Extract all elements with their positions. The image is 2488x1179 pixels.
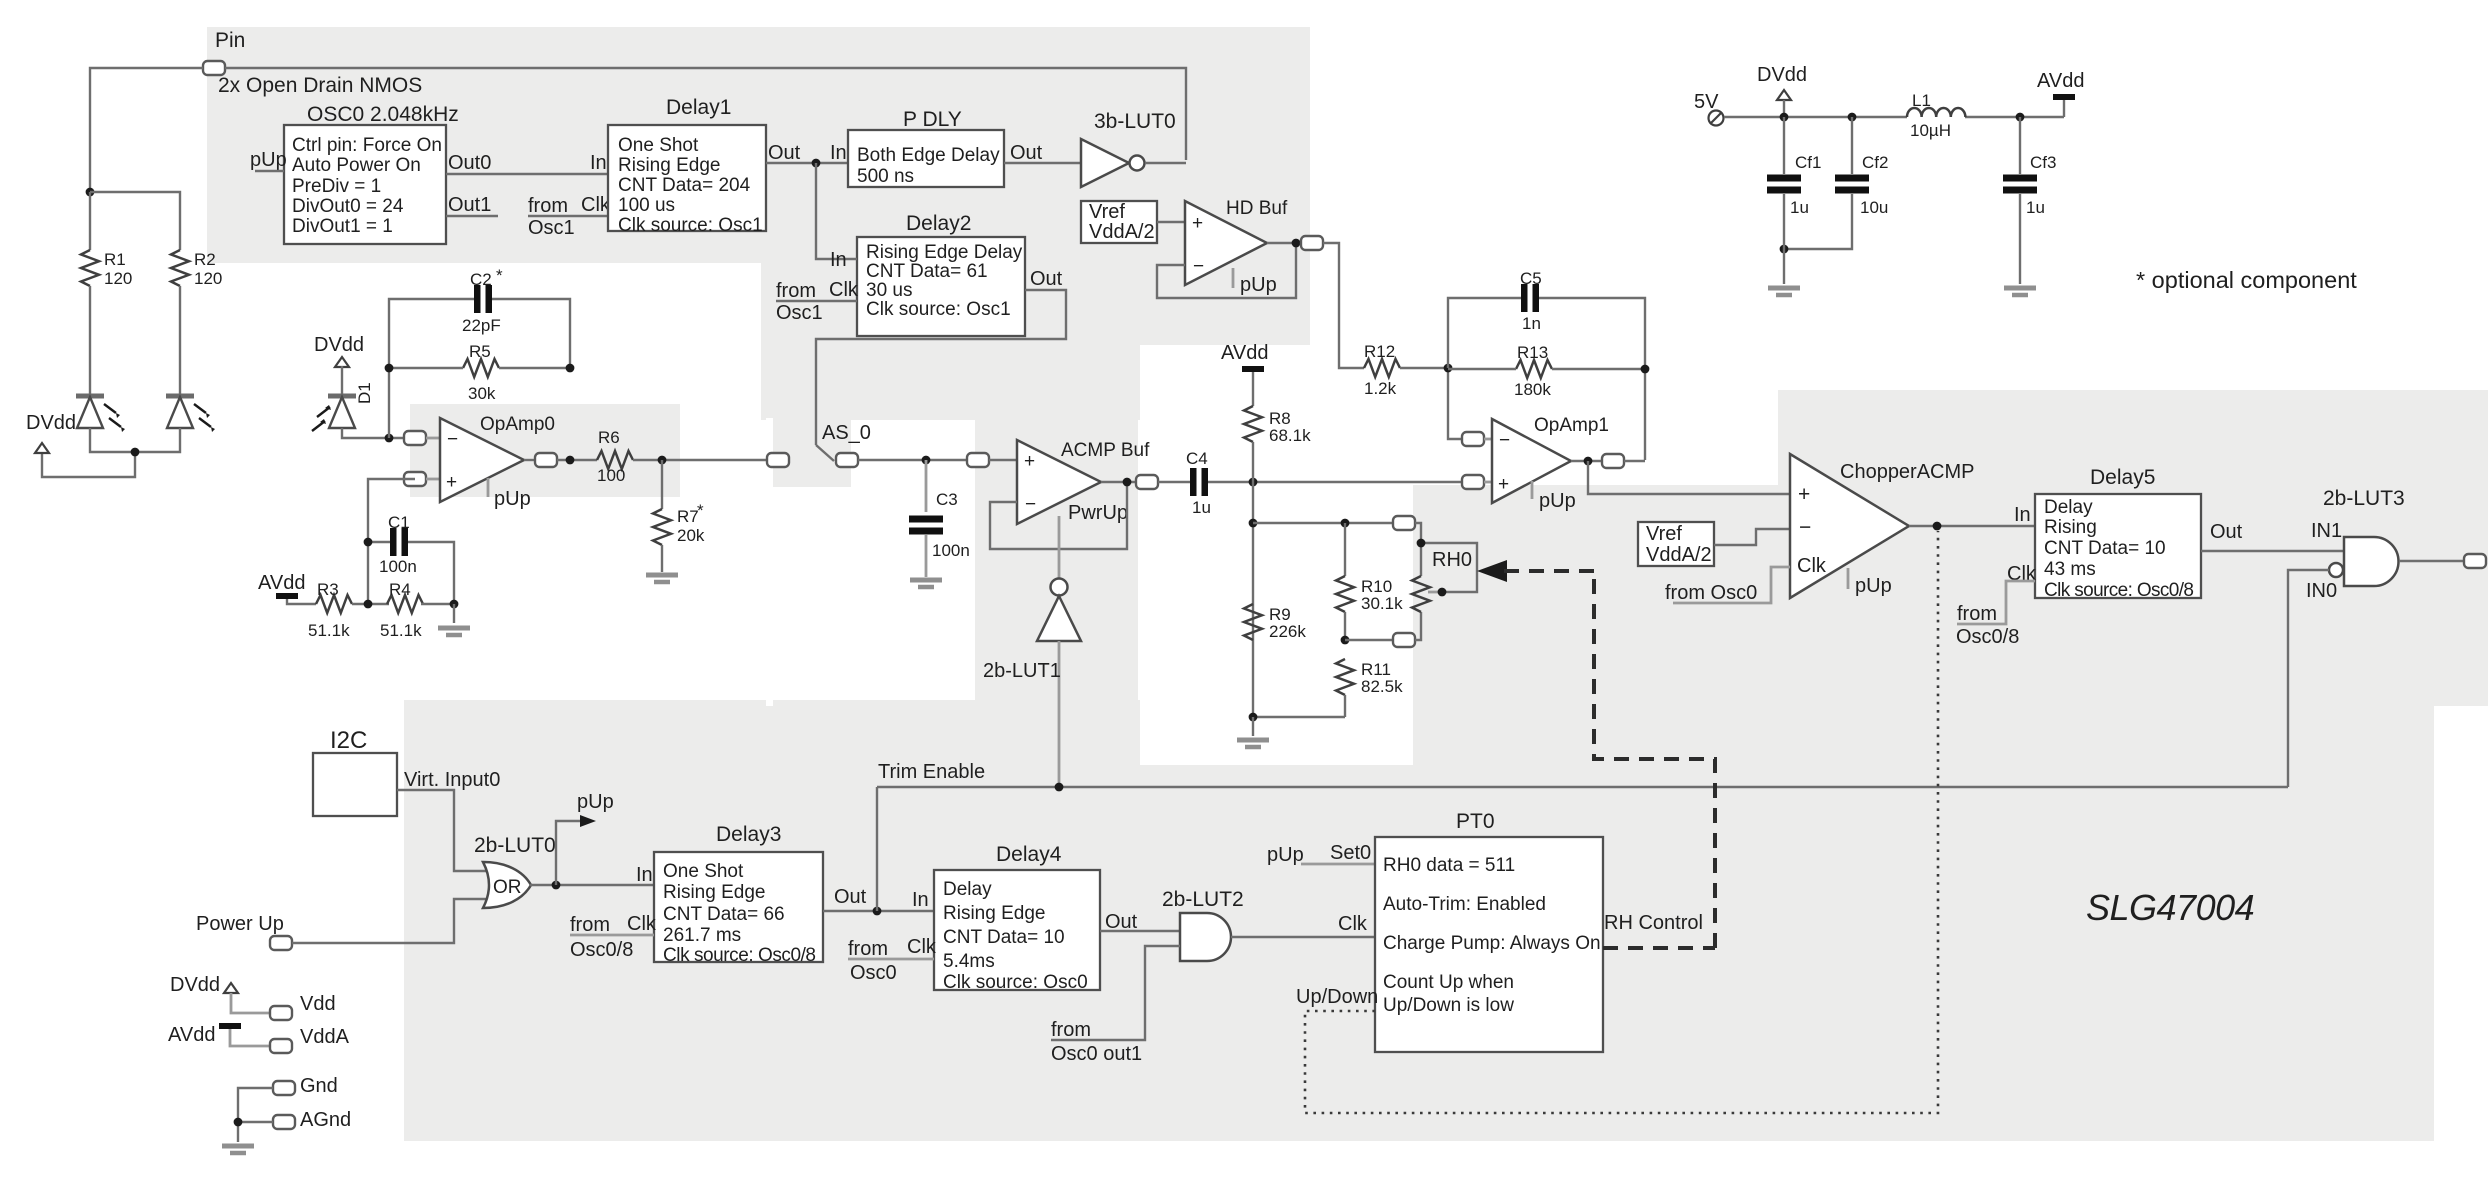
node: OpAmp0 output junction <box>566 456 575 465</box>
resistor R6 100 <box>597 428 633 485</box>
svg-text:2b-LUT0: 2b-LUT0 <box>474 834 556 857</box>
pin Gnd <box>273 1075 338 1097</box>
wire: ACMP Buf feedback loop <box>990 482 1127 549</box>
svg-text:−: − <box>447 429 458 450</box>
svg-text:+: + <box>1798 483 1810 506</box>
block PT0 (auto-trim) <box>1375 810 1603 1052</box>
node: minus input junction <box>385 434 394 443</box>
svg-text:Cf3: Cf3 <box>2030 153 2056 172</box>
svg-text:DVdd: DVdd <box>1757 64 1807 86</box>
svg-text:R1: R1 <box>104 250 126 269</box>
diode D1 photodiode <box>312 366 374 431</box>
wire: Delay2 Out down to switch AS_0 <box>816 268 1066 445</box>
wire: R5 rail <box>389 367 570 369</box>
svg-text:Virt. Input0: Virt. Input0 <box>404 769 500 791</box>
wire: 2b-LUT0 output to Delay3 In <box>530 864 654 886</box>
svg-text:pUp: pUp <box>250 149 287 171</box>
svg-text:C4: C4 <box>1186 449 1208 468</box>
wire: Clk from Osc0 into Delay4 <box>848 936 937 984</box>
svg-text:Vref: Vref <box>1089 201 1125 223</box>
svg-text:AVdd: AVdd <box>168 1024 215 1046</box>
svg-text:−: − <box>1193 256 1204 277</box>
svg-text:In: In <box>830 249 847 271</box>
wire: Delay1 junction down to Delay2 In <box>816 163 857 271</box>
svg-text:AVdd: AVdd <box>258 572 305 594</box>
svg-text:Vref: Vref <box>1646 523 1682 545</box>
rheostat RH0 <box>1412 523 1477 640</box>
node: Cf2 junction <box>1848 113 1857 122</box>
svg-text:Vdd: Vdd <box>300 993 336 1015</box>
svg-text:ACMP Buf: ACMP Buf <box>1061 440 1150 461</box>
wire: Clk from Osc1 into Delay2 <box>776 279 859 324</box>
capacitor C4 1u <box>1158 449 1211 517</box>
wire: Power Up to 2b-LUT0 <box>292 899 487 943</box>
pin HD Buf output pin <box>1301 236 1323 250</box>
power AVdd (bottom pins) <box>168 1024 271 1046</box>
svg-text:R6: R6 <box>598 428 620 447</box>
pin Power Up <box>196 913 292 950</box>
resistor R13 180k <box>1514 343 1552 399</box>
wire: ChopperACMP output to Delay5 <box>1909 525 2035 527</box>
svg-text:Clk: Clk <box>581 194 611 216</box>
svg-text:Trim Enable: Trim Enable <box>878 761 985 783</box>
wire: Clk from Osc0 into ChopperACMP <box>1665 567 1790 604</box>
svg-text:2b-LUT2: 2b-LUT2 <box>1162 888 1244 911</box>
dashed wire: RH Control path <box>1504 571 1715 948</box>
svg-text:Clk source: Osc1: Clk source: Osc1 <box>866 299 1011 320</box>
node: R10 top junction <box>1341 519 1350 528</box>
svg-text:Out: Out <box>1010 142 1043 164</box>
svg-text:Delay: Delay <box>943 879 992 900</box>
resistor R4 51.1k <box>352 580 423 640</box>
svg-text:In: In <box>636 864 653 886</box>
delay Delay3 block <box>654 823 823 966</box>
svg-text:43 ms: 43 ms <box>2044 559 2096 580</box>
svg-text:180k: 180k <box>1514 380 1551 399</box>
resistor R7* 20k <box>653 460 705 545</box>
svg-text:OpAmp1: OpAmp1 <box>1534 415 1609 436</box>
and gate 2b-LUT2 <box>1162 888 1244 961</box>
reference Vref VddA/2 (ChopperACMP) <box>1638 522 1714 566</box>
svg-text:Osc0 out1: Osc0 out1 <box>1051 1043 1142 1065</box>
svg-text:DVdd: DVdd <box>26 412 76 434</box>
svg-text:RH0 data = 511: RH0 data = 511 <box>1383 855 1515 876</box>
comparator ChopperACMP <box>1790 454 1975 598</box>
svg-text:One Shot: One Shot <box>663 861 744 882</box>
node: R13 right junction <box>1641 365 1650 374</box>
wire: C1 branch <box>368 542 454 604</box>
svg-text:*: * <box>496 266 503 285</box>
svg-text:1u: 1u <box>1790 198 1809 217</box>
svg-text:RH Control: RH Control <box>1604 912 1703 934</box>
svg-text:Up/Down: Up/Down <box>1296 986 1378 1008</box>
svg-text:CNT Data= 66: CNT Data= 66 <box>663 904 785 925</box>
svg-text:Clk: Clk <box>1338 913 1368 935</box>
svg-text:from: from <box>528 195 568 217</box>
svg-text:10u: 10u <box>1860 198 1888 217</box>
svg-text:Rising Edge: Rising Edge <box>663 882 765 903</box>
svg-text:Clk: Clk <box>829 279 859 301</box>
svg-text:I2C: I2C <box>330 727 367 754</box>
svg-text:Clk source: Osc0/8: Clk source: Osc0/8 <box>2044 580 2194 601</box>
svg-text:from: from <box>776 280 816 302</box>
inverter 3b-LUT0 <box>1081 110 1176 187</box>
svg-text:pUp: pUp <box>1240 274 1277 296</box>
block I2C <box>313 727 397 816</box>
svg-text:Auto-Trim: Enabled: Auto-Trim: Enabled <box>1383 894 1546 915</box>
svg-text:Clk source: Osc1: Clk source: Osc1 <box>618 215 763 236</box>
node: R10/R11 junction <box>1341 636 1350 645</box>
svg-text:Out: Out <box>2210 521 2243 543</box>
svg-text:CNT Data= 10: CNT Data= 10 <box>2044 538 2166 559</box>
svg-text:+: + <box>1024 451 1035 472</box>
svg-text:IN0: IN0 <box>2306 580 2337 602</box>
node: ACMP output junction <box>1123 478 1132 487</box>
node: ChopperACMP output junction <box>1933 522 1942 531</box>
wire: R8/R9 column <box>1252 482 1254 717</box>
power DVdd (top) <box>1757 64 1807 117</box>
svg-text:VddA: VddA <box>300 1026 350 1048</box>
svg-text:R7: R7 <box>677 507 699 526</box>
resistor R1 120 <box>81 192 132 288</box>
wire: R1 bottom to LED1 <box>89 286 91 395</box>
svg-text:HD Buf: HD Buf <box>1226 198 1288 219</box>
delay Delay5 block <box>2014 466 2201 601</box>
svg-text:120: 120 <box>104 269 132 288</box>
wire: Clk from Osc0/8 into Delay5 <box>1956 563 2037 648</box>
svg-text:Delay2: Delay2 <box>906 212 971 235</box>
delay Delay1 block <box>608 96 766 236</box>
wire: OpAmp1 out to ChopperACMP plus <box>1588 461 1790 494</box>
svg-text:from: from <box>848 938 888 960</box>
wire: P DLY Out to 3b-LUT0 <box>1004 142 1081 164</box>
nand gate 2b-LUT3 <box>2306 487 2405 602</box>
svg-text:In: In <box>590 152 607 174</box>
wire: R10 bottom to RH0 bottom pin <box>1345 639 1393 641</box>
op-amp ACMP Buf <box>1017 440 1150 524</box>
ground (Cf3) <box>2004 194 2036 295</box>
svg-text:30.1k: 30.1k <box>1361 594 1403 613</box>
inductor L1 10uH <box>1907 91 1965 140</box>
svg-text:Osc0/8: Osc0/8 <box>570 939 633 961</box>
svg-text:Rising Edge: Rising Edge <box>943 903 1045 924</box>
wire: C5 feedback rail <box>1448 298 1645 460</box>
resistor R8 68.1k <box>1221 342 1311 482</box>
node: R7 tap junction <box>658 456 667 465</box>
op-amp HD Buf <box>1185 198 1288 296</box>
ground (R4/C1) <box>438 604 470 635</box>
wire: R2 bottom to LED2 <box>179 286 181 395</box>
svg-text:Out: Out <box>834 886 867 908</box>
svg-text:from: from <box>570 914 610 936</box>
svg-text:Out0: Out0 <box>448 152 491 174</box>
svg-text:from Osc0: from Osc0 <box>1665 582 1757 604</box>
wire: divider to RH0 top pin <box>1253 522 1393 524</box>
svg-text:CNT Data= 61: CNT Data= 61 <box>866 261 988 282</box>
source 5V input <box>1694 91 1724 126</box>
svg-text:AGnd: AGnd <box>300 1109 351 1131</box>
svg-text:Out1: Out1 <box>448 194 491 216</box>
node: LUT0 output junction <box>552 881 561 890</box>
svg-text:Clk: Clk <box>907 936 937 958</box>
wire: OSC0 Out0 to Delay1 In <box>446 152 608 174</box>
svg-text:pUp: pUp <box>1267 844 1304 866</box>
dotted wire: Up/Down path <box>1305 531 1938 1113</box>
wire: HD Buf feedback loop <box>1157 243 1296 298</box>
pin RH0 bottom pin <box>1393 633 1415 647</box>
svg-text:Osc0/8: Osc0/8 <box>1956 626 2019 648</box>
wire: Delay1 Out to P DLY In <box>766 142 848 164</box>
inverter 2b-LUT1 <box>983 516 1081 787</box>
svg-text:AVdd: AVdd <box>2037 70 2084 92</box>
node: R4 right junction <box>450 600 459 609</box>
wire: D1 to OpAmp0 minus input <box>342 428 404 438</box>
svg-text:pUp: pUp <box>494 488 531 510</box>
ground (Cf1) <box>1768 194 1800 295</box>
svg-text:+: + <box>446 472 457 493</box>
oscillator OSC0 block <box>284 103 459 244</box>
svg-text:In: In <box>2014 504 2031 526</box>
power DVdd (left arrow symbol) <box>26 412 76 453</box>
wire: IN0 down to trim enable net <box>2288 570 2329 787</box>
svg-text:from: from <box>1957 603 1997 625</box>
svg-text:Delay3: Delay3 <box>716 823 781 846</box>
wire: ACMP Buf output <box>1101 481 1137 483</box>
node: AGnd junction <box>234 1118 243 1127</box>
wire: Cf2 return to Cf1 <box>1784 194 1852 249</box>
svg-text:C3: C3 <box>936 490 958 509</box>
pin Out1 (OSC0 stub) <box>446 194 498 216</box>
delay P DLY block <box>848 108 1004 187</box>
node: ground junction <box>1249 713 1258 722</box>
svg-text:In: In <box>830 142 847 164</box>
svg-text:Delay4: Delay4 <box>996 843 1062 866</box>
svg-text:51.1k: 51.1k <box>308 621 350 640</box>
svg-text:−: − <box>1025 494 1036 515</box>
node: C4/R8 junction <box>1249 478 1258 487</box>
wire: R4 to ground <box>421 603 454 605</box>
svg-text:Rising Edge Delay: Rising Edge Delay <box>866 242 1023 263</box>
svg-text:One Shot: One Shot <box>618 135 699 156</box>
svg-text:226k: 226k <box>1269 622 1306 641</box>
delay Delay2 block <box>857 212 1025 336</box>
svg-text:Set0: Set0 <box>1330 842 1371 864</box>
node: trim tap junction <box>873 907 882 916</box>
svg-text:Osc0: Osc0 <box>850 962 897 984</box>
or gate 2b-LUT0 <box>474 834 556 908</box>
wire: R13 rail <box>1448 368 1645 370</box>
node: OpAmp1 output junction <box>1584 457 1593 466</box>
svg-text:1.2k: 1.2k <box>1364 379 1397 398</box>
node: DVdd junction <box>1780 113 1789 122</box>
op-amp OpAmp1 <box>1462 415 1645 512</box>
svg-text:1u: 1u <box>1192 498 1211 517</box>
svg-text:100 us: 100 us <box>618 195 675 216</box>
svg-text:R2: R2 <box>194 250 216 269</box>
wire: R2 branch top <box>90 192 180 250</box>
wire: OpAmp0 output to R6 <box>557 459 597 461</box>
svg-text:R13: R13 <box>1517 343 1548 362</box>
external component white regions <box>766 345 1413 765</box>
svg-text:* optional component: * optional component <box>2136 267 2357 293</box>
op-amp OpAmp0 <box>404 414 557 510</box>
svg-text:10µH: 10µH <box>1910 121 1951 140</box>
svg-text:261.7 ms: 261.7 ms <box>663 925 741 946</box>
ground (R7) <box>646 545 678 582</box>
svg-text:+: + <box>1498 474 1509 495</box>
wire: Delay4 Out to 2b-LUT2 <box>1100 911 1180 933</box>
svg-text:68.1k: 68.1k <box>1269 426 1311 445</box>
capacitor C1 100n <box>379 513 417 576</box>
svg-text:Rising: Rising <box>2044 517 2097 538</box>
svg-text:−: − <box>1799 516 1811 539</box>
wire: divider bottom rail <box>1253 716 1345 718</box>
svg-text:C1: C1 <box>388 513 410 532</box>
svg-text:SLG47004: SLG47004 <box>2086 887 2254 928</box>
wire: 3b-LUT0 output up to Pin rail <box>1145 162 1186 164</box>
svg-text:+: + <box>1192 213 1203 234</box>
svg-text:2x Open Drain NMOS: 2x Open Drain NMOS <box>218 74 422 97</box>
svg-text:R3: R3 <box>317 580 339 599</box>
pin Vdd <box>270 993 336 1020</box>
wire: Gnd/AGnd to ground <box>238 1088 273 1142</box>
svg-text:DVdd: DVdd <box>170 974 220 996</box>
svg-text:Osc1: Osc1 <box>528 217 575 239</box>
svg-text:Clk source: Osc0/8: Clk source: Osc0/8 <box>663 945 816 966</box>
svg-text:120: 120 <box>194 269 222 288</box>
wire: 2b-LUT3 output pin <box>2399 554 2486 568</box>
svg-text:−: − <box>1499 430 1510 451</box>
svg-text:Gnd: Gnd <box>300 1075 338 1097</box>
svg-text:Clk source: Osc0: Clk source: Osc0 <box>943 972 1088 993</box>
switch AS_0 <box>816 422 871 461</box>
resistor R2 120 <box>171 250 222 288</box>
svg-text:Ctrl pin: Force On: Ctrl pin: Force On <box>292 135 442 156</box>
wire: Virt. Input0 to 2b-LUT0 <box>397 769 500 871</box>
capacitor Cf1 1u <box>1767 117 1821 217</box>
svg-text:5.4ms: 5.4ms <box>943 951 995 972</box>
arrow: RH control into RH0 <box>1477 560 1507 582</box>
svg-text:pUp: pUp <box>577 791 614 813</box>
svg-text:VddA/2: VddA/2 <box>1089 221 1155 243</box>
svg-text:VddA/2: VddA/2 <box>1646 544 1712 566</box>
svg-text:1n: 1n <box>1522 314 1541 333</box>
power AVdd (top) <box>2037 70 2084 97</box>
svg-text:C5: C5 <box>1520 269 1542 288</box>
svg-text:RH0: RH0 <box>1432 549 1472 571</box>
wire: pin to ACMP Buf <box>989 459 1017 461</box>
svg-text:Out: Out <box>1030 268 1063 290</box>
svg-text:R12: R12 <box>1364 342 1395 361</box>
node: RH0 top junction <box>1417 539 1426 548</box>
svg-text:Delay5: Delay5 <box>2090 466 2155 489</box>
delay Delay4 block <box>934 843 1100 993</box>
wire: HD Buf out to R12 <box>1323 243 1364 368</box>
pin pUp (OSC0 power-up) <box>250 149 287 171</box>
ground (chip) <box>222 1146 254 1153</box>
node: R5 left junction <box>385 364 394 373</box>
svg-text:OR: OR <box>493 877 522 898</box>
svg-text:Count Up when: Count Up when <box>1383 972 1514 993</box>
resistor R12 1.2k <box>1364 342 1400 398</box>
pin VddA <box>270 1026 350 1053</box>
pin ACMP output pin <box>1136 475 1158 489</box>
svg-text:Cf2: Cf2 <box>1862 153 1888 172</box>
wire: pUp to Set0 <box>1267 842 1375 866</box>
resistor R9 226k <box>1244 604 1306 641</box>
capacitor Cf2 10u <box>1835 117 1888 217</box>
svg-text:100n: 100n <box>379 557 417 576</box>
svg-text:Out: Out <box>768 142 801 164</box>
wire: from Osc0 out1 into 2b-LUT2 <box>1051 946 1180 1065</box>
wire: Vref to ChopperACMP minus <box>1714 529 1790 545</box>
wire: C4 to OpAmp1 plus <box>1208 481 1463 483</box>
svg-text:R4: R4 <box>389 580 411 599</box>
svg-text:100: 100 <box>597 466 625 485</box>
svg-text:D1: D1 <box>355 382 374 404</box>
pin AS_0 left pin <box>767 453 789 467</box>
node: R3/R4 junction <box>364 600 373 609</box>
svg-text:100n: 100n <box>932 541 970 560</box>
wire: HD Buf output <box>1267 242 1302 244</box>
svg-text:IN1: IN1 <box>2311 520 2342 542</box>
svg-text:Cf1: Cf1 <box>1795 153 1821 172</box>
wire: LED cathodes to DVdd return <box>42 428 180 477</box>
diode LED2 (emitter) <box>166 396 215 432</box>
wire: Clk from Osc1 into Delay1 <box>528 194 611 239</box>
svg-text:Power Up: Power Up <box>196 913 284 935</box>
svg-text:PreDiv = 1: PreDiv = 1 <box>292 176 381 197</box>
power DVdd (D1 branch) <box>314 334 364 367</box>
svg-text:Delay: Delay <box>2044 497 2093 518</box>
svg-text:2b-LUT3: 2b-LUT3 <box>2323 487 2405 510</box>
node: divider junction <box>1249 519 1258 528</box>
ground (C3) <box>910 535 942 587</box>
power DVdd (bottom pins) <box>170 974 271 1013</box>
svg-text:Osc1: Osc1 <box>776 302 823 324</box>
node: R5 right junction <box>566 364 575 373</box>
svg-text:from: from <box>1051 1019 1091 1041</box>
node: R12/R13 junction <box>1444 364 1453 373</box>
svg-text:Both Edge Delay: Both Edge Delay <box>857 145 1000 166</box>
svg-text:20k: 20k <box>677 526 705 545</box>
wire: Trim Enable net <box>877 761 2288 787</box>
wire: Vref to HD Buf plus input <box>1157 221 1185 223</box>
svg-text:2b-LUT1: 2b-LUT1 <box>983 660 1061 682</box>
svg-text:Clk: Clk <box>1797 555 1827 577</box>
svg-text:3b-LUT0: 3b-LUT0 <box>1094 110 1176 133</box>
pin RH0 top pin <box>1393 516 1415 530</box>
svg-text:Clk: Clk <box>627 913 657 935</box>
wire: Delay5 Out to 2b-LUT3 IN1 <box>2201 520 2344 551</box>
svg-text:OpAmp0: OpAmp0 <box>480 414 555 435</box>
svg-text:1u: 1u <box>2026 198 2045 217</box>
svg-text:DivOut1 = 1: DivOut1 = 1 <box>292 216 393 237</box>
resistor R11 82.5k <box>1336 659 1403 717</box>
svg-text:82.5k: 82.5k <box>1361 677 1403 696</box>
resistor R10 30.1k <box>1336 523 1403 640</box>
svg-text:Out: Out <box>1105 911 1138 933</box>
capacitor Cf3 1u <box>2003 117 2056 217</box>
ground (divider) <box>1237 717 1269 747</box>
svg-text:PT0: PT0 <box>1456 810 1495 833</box>
node: C1 left junction <box>364 538 373 547</box>
node: junction R1/R2 top <box>86 188 95 197</box>
svg-text:R5: R5 <box>469 342 491 361</box>
wire: Trim Enable riser <box>876 787 878 911</box>
node: Cf1/Cf2 junction <box>1780 245 1789 254</box>
wire: Delay3 Out to Delay4 In <box>823 886 934 911</box>
